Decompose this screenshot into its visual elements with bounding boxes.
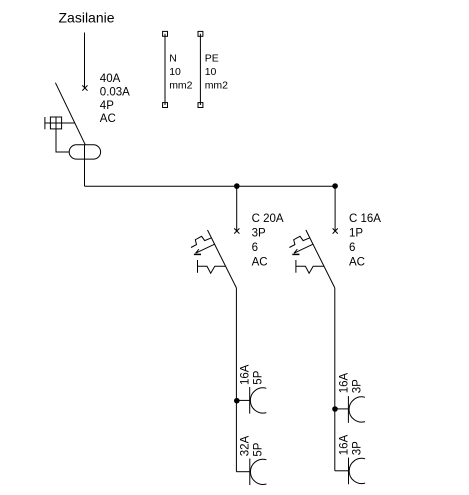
socket outlet 1 junction dot (234, 398, 240, 404)
socket outlet 1 label 16A 5P (240, 364, 265, 385)
socket outlet 2 arc (250, 459, 266, 484)
svg-text:40A: 40A (100, 73, 121, 85)
socket outlet 3 bar (347, 396, 349, 423)
RCD value label 40A 0.03A 4P AC (100, 73, 130, 125)
svg-text:PE: PE (205, 53, 219, 65)
RCD switch blade (55, 83, 85, 145)
svg-text:N: N (169, 53, 177, 65)
socket outlet 4 bar (348, 458, 350, 485)
svg-text:C 20A: C 20A (252, 213, 284, 225)
RCD trip linkage window (50, 117, 61, 129)
breaker 2 switch blade (306, 230, 335, 288)
breaker 1 feed wire (236, 186, 238, 231)
svg-text:C 16A: C 16A (349, 213, 381, 225)
svg-text:6: 6 (349, 242, 355, 254)
socket outlet 2 label 32A 5P (240, 435, 265, 456)
svg-text:AC: AC (100, 113, 116, 125)
svg-text:mm2: mm2 (169, 79, 192, 91)
svg-text:4P: 4P (100, 100, 114, 112)
junction dot 1 (234, 183, 240, 189)
RCD contact cross (82, 85, 87, 90)
svg-text:1P: 1P (349, 228, 363, 240)
breaker 1 magnetic release (198, 260, 226, 273)
svg-text:32A: 32A (240, 435, 252, 456)
wire supply drop (84, 33, 86, 89)
svg-text:Zasilanie: Zasilanie (59, 10, 115, 26)
socket outlet 2 bar (249, 459, 251, 486)
socket outlet 3 label 16A 3P (338, 373, 363, 394)
conductor N riser (163, 31, 193, 107)
breaker 1 switch blade (208, 230, 237, 288)
breaker 1 trip arrow (194, 244, 214, 254)
svg-text:10: 10 (169, 66, 181, 78)
svg-text:6: 6 (252, 242, 258, 254)
RCD current transformer oval (69, 145, 100, 159)
svg-text:AC: AC (252, 256, 268, 268)
svg-text:16A: 16A (338, 373, 350, 394)
socket outlet 4 arc (349, 458, 365, 483)
svg-text:10: 10 (205, 66, 217, 78)
socket outlet 2 tap wire (236, 471, 249, 473)
socket outlet 1 bar (249, 387, 251, 414)
breaker 2 trip arrow (292, 244, 312, 254)
socket outlet 3 junction dot (332, 406, 338, 412)
wire RCD to bus (84, 145, 86, 186)
breaker 1 value label C 20A 3P 6 AC (252, 213, 284, 268)
socket outlet 3 tap wire (335, 408, 349, 410)
svg-text:16A: 16A (338, 434, 350, 455)
socket outlet 4 tap wire (335, 470, 349, 472)
svg-text:AC: AC (349, 256, 365, 268)
breaker 1 contact cross (234, 228, 239, 233)
socket outlet 1 tap wire (237, 399, 250, 401)
socket outlet 3 arc (349, 397, 365, 422)
svg-text:mm2: mm2 (205, 79, 228, 91)
breaker 2 magnetic release (296, 260, 324, 273)
breaker 2 value label C 16A 1P 6 AC (349, 213, 381, 268)
socket outlet 4 label 16A 3P (338, 434, 363, 455)
svg-text:3P: 3P (252, 228, 266, 240)
wire branch 1 (235, 288, 237, 472)
breaker 1 thermal release (191, 236, 211, 247)
breaker 2 contact cross (333, 228, 338, 233)
RCD linkage end bar (44, 117, 46, 129)
svg-text:0.03A: 0.03A (100, 86, 130, 98)
breaker 2 thermal release (289, 236, 309, 247)
conductor PE riser (198, 31, 228, 107)
RCD linkage elbow wire (56, 117, 69, 152)
svg-text:3P: 3P (351, 379, 363, 393)
svg-text:5P: 5P (253, 442, 265, 456)
svg-text:3P: 3P (351, 441, 363, 455)
svg-text:5P: 5P (253, 370, 265, 384)
wire bus (85, 185, 336, 187)
svg-text:16A: 16A (240, 364, 252, 385)
junction dot 2 (332, 183, 338, 189)
RCD linkage horizontal wire (45, 122, 75, 124)
wire branch 2 (334, 288, 336, 471)
breaker 2 feed wire (334, 186, 336, 231)
socket outlet 1 arc (250, 388, 266, 413)
